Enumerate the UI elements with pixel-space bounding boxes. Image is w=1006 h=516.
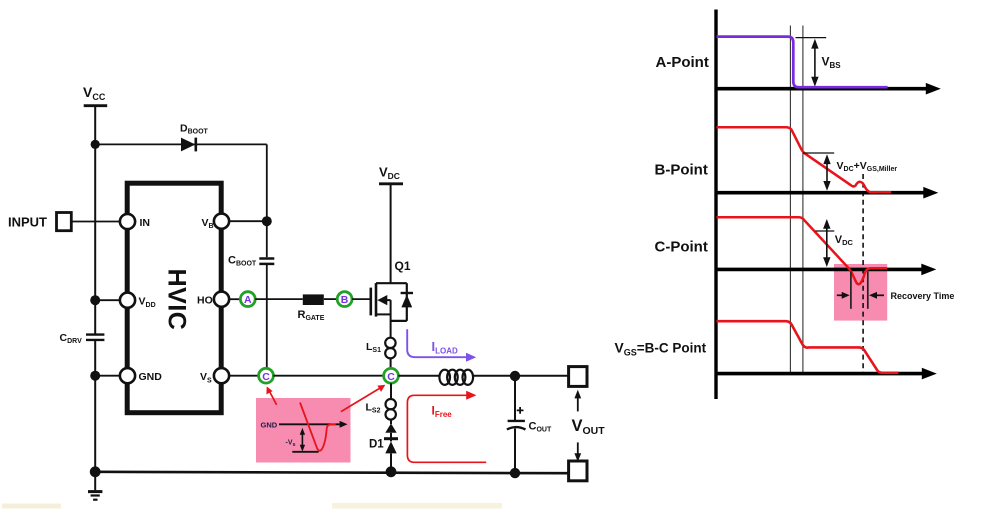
GND sketch red undershoot curve [300, 403, 336, 451]
wire C1 to C2 [273, 375, 383, 377]
HVIC block U1 [127, 183, 221, 413]
wire A to RGATE [255, 298, 303, 300]
x-axis row C [716, 264, 936, 276]
ground [88, 472, 102, 500]
wire rail to GND pin [95, 375, 120, 377]
node B [337, 292, 352, 307]
inductor output filter [439, 370, 473, 385]
svg-text:VDC+VGS,Miller: VDC+VGS,Miller [837, 160, 898, 173]
svg-text:HO: HO [197, 295, 213, 307]
waveform A (purple) [717, 37, 888, 88]
svg-text:Recovery Time: Recovery Time [891, 291, 955, 301]
svg-text:Q1: Q1 [395, 259, 411, 273]
Vcc supply bar [84, 104, 108, 107]
wire HO to node A [229, 298, 240, 300]
svg-text:IN: IN [140, 217, 151, 229]
terminal VOUT top [569, 367, 587, 387]
transistor Q1 [371, 259, 413, 338]
svg-text:LS2: LS2 [366, 402, 381, 415]
pin HO [214, 292, 229, 307]
wire VB to junction [229, 220, 267, 222]
capacitor CBOOT [228, 255, 274, 268]
arrow up to Vout top [574, 390, 581, 412]
wire inductor to Vout [473, 375, 568, 377]
-Vs measure arrow [286, 428, 306, 452]
svg-text:D1: D1 [369, 439, 384, 451]
svg-text:C-Point: C-Point [655, 239, 708, 256]
wire D1 to bottom rail [390, 453, 392, 472]
inductor LS1 [366, 338, 396, 359]
svg-text:RGATE: RGATE [298, 309, 325, 322]
pink highlight recovery region [834, 264, 887, 321]
node junction VB [262, 216, 272, 226]
wire LS2 to D1 [390, 420, 392, 425]
pin VS [214, 368, 229, 383]
VBS measure arrow [811, 39, 841, 87]
dashed guide line [862, 174, 864, 374]
svg-text:GND: GND [261, 420, 278, 429]
inductor LS2 [366, 399, 396, 420]
wire C2 to output inductor [398, 375, 439, 377]
red pointer to node C1 [266, 386, 276, 404]
wire VS to node C1 [229, 375, 259, 377]
node junction Cout top [510, 371, 520, 381]
node C1 [259, 368, 274, 383]
arrow ILOAD [407, 329, 476, 361]
svg-text:LS1: LS1 [366, 341, 381, 354]
pin VDD [120, 293, 135, 308]
-Vs bottom tick [292, 451, 318, 453]
x-axis row A [716, 83, 941, 95]
svg-text:HVIC: HVIC [162, 269, 190, 331]
recovery arrow left [837, 292, 850, 299]
x-axis row B [716, 187, 938, 199]
diode DBOOT [180, 123, 209, 152]
resistor RGATE [298, 294, 325, 322]
wire Dboot down to VB [266, 144, 268, 221]
wire junction down to Cout [514, 376, 516, 420]
highlight bar bottom-middle [332, 503, 502, 509]
waveform C (red) [717, 217, 888, 284]
svg-text:DBOOT: DBOOT [180, 123, 209, 136]
svg-text:INPUT: INPUT [8, 215, 47, 230]
VBS top tick [796, 37, 827, 39]
svg-text:VOUT: VOUT [572, 417, 606, 437]
svg-text:C: C [262, 371, 270, 383]
VDC+VGS tick [803, 152, 834, 154]
svg-text:B-Point: B-Point [655, 162, 708, 179]
wire Vdc to drain [390, 184, 392, 283]
svg-text:CBOOT: CBOOT [228, 255, 257, 268]
svg-text:ILOAD: ILOAD [432, 339, 459, 355]
VDC+VGS measure arrow [823, 154, 897, 191]
pin IN [120, 214, 135, 229]
wire LS1 to node C2 [390, 358, 392, 368]
waveform VGS (red) [717, 321, 899, 373]
capacitor COUT [507, 407, 552, 434]
timing guide line 1 [789, 26, 791, 374]
node junction Cout bottom [510, 468, 520, 478]
node junction bottom-left corner [90, 466, 101, 477]
pink inset box (Vs undershoot sketch) [256, 398, 351, 463]
svg-text:VCC: VCC [83, 84, 106, 102]
red pointer to node C2 [341, 385, 385, 412]
wire CBOOT down to node C1 [266, 265, 268, 369]
highlight bar bottom-left [2, 504, 61, 509]
pin VB [214, 214, 229, 229]
wire INPUT to IN [72, 221, 120, 223]
wire RGATE to node B [324, 298, 337, 300]
diode D1 [369, 423, 398, 453]
VDC tick [815, 230, 834, 232]
svg-text:VDC: VDC [379, 165, 400, 182]
capacitor CDRV [60, 332, 105, 345]
svg-text:GND: GND [139, 371, 163, 383]
node junction Vcc/Dboot [91, 140, 100, 149]
node junction GND rail [90, 371, 100, 381]
wire rail to VDD [95, 299, 120, 301]
wire Cout to bottom rail [514, 429, 516, 474]
recovery bracket left [850, 272, 852, 309]
terminal VOUT bottom [569, 461, 587, 481]
svg-text:C: C [387, 371, 395, 383]
wire left rail lower [94, 341, 96, 473]
recovery arrow right [869, 292, 884, 299]
svg-text:VGS=B-C Point: VGS=B-C Point [615, 341, 707, 358]
wire left rail upper [94, 144, 96, 333]
arrow IFree [407, 391, 486, 463]
svg-text:B: B [341, 294, 349, 306]
INPUT terminal square [57, 213, 72, 231]
node junction VDD rail [90, 295, 100, 305]
Vcc label [83, 84, 106, 102]
node C2 [384, 368, 399, 383]
wire Dboot horizontal [95, 143, 267, 145]
VDC measure arrow [823, 219, 853, 267]
arrow down to Vout bottom [574, 442, 581, 461]
svg-text:VDC: VDC [835, 234, 854, 247]
wire C2 to LS2 [390, 383, 392, 399]
recovery bracket right [867, 272, 869, 309]
timing guide line 2 [802, 26, 804, 374]
svg-text:COUT: COUT [529, 421, 552, 434]
GND sketch axis arrow [279, 423, 341, 425]
waveform y-axis [714, 10, 717, 400]
waveform B (red) [717, 127, 892, 192]
wire junction down to CBOOT [266, 221, 268, 257]
Vdc supply bar [379, 182, 403, 185]
node junction D1 bottom [386, 466, 397, 477]
pin GND [120, 368, 135, 383]
node A [240, 292, 255, 307]
svg-text:A: A [244, 294, 252, 306]
svg-text:CDRV: CDRV [60, 332, 83, 345]
wire Vcc stub [94, 106, 96, 145]
x-axis row VGS [716, 368, 937, 380]
wire bottom rail [95, 472, 568, 473]
wire B to gate [352, 298, 371, 300]
svg-text:VBS: VBS [822, 55, 842, 70]
svg-text:A-Point: A-Point [656, 54, 709, 71]
svg-text:IFree: IFree [432, 404, 453, 419]
